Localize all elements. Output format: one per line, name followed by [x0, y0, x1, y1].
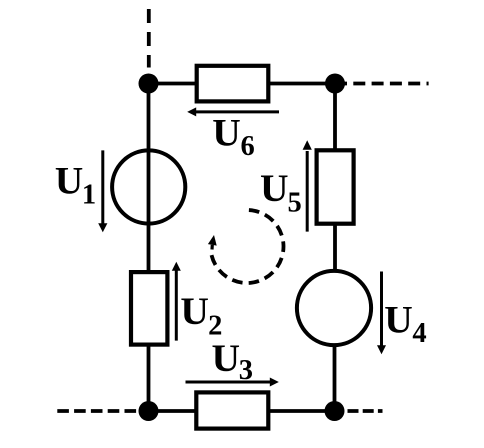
svg-text:3: 3 [239, 355, 253, 386]
voltage arrow U4 (down) [377, 272, 386, 355]
dashed branch continuation right-top [335, 82, 429, 86]
wire bottom-left segment [149, 409, 199, 413]
dashed branch continuation bottom-left [57, 409, 136, 413]
voltage arrow U2 (up) [172, 262, 181, 341]
wire bottom-right segment [267, 409, 335, 413]
resistor (voltage U3) [196, 392, 268, 428]
svg-text:5: 5 [288, 188, 302, 219]
svg-text:6: 6 [241, 131, 255, 162]
voltage arrow U1 (down) [98, 150, 107, 232]
node bottom-right [325, 401, 345, 421]
node top-left [139, 74, 159, 94]
svg-text:U: U [384, 297, 413, 341]
voltage arrow U5 (up) [303, 140, 312, 231]
dashed branch continuation top [147, 9, 151, 68]
source (voltage U1) [112, 150, 185, 223]
wire right-bottom segment [333, 345, 337, 411]
resistor (voltage U6) [197, 66, 269, 102]
svg-text:U: U [55, 159, 84, 203]
svg-text:U: U [260, 166, 289, 210]
wire top-left segment [149, 82, 199, 86]
resistor (voltage U2) [131, 272, 167, 345]
wire left segment (through source U1) [147, 84, 151, 274]
source (voltage U4) [297, 271, 371, 345]
svg-text:U: U [180, 289, 209, 333]
svg-text:U: U [212, 336, 241, 380]
node top-right [325, 74, 345, 94]
svg-text:1: 1 [82, 180, 96, 211]
wire right-middle segment [333, 223, 337, 272]
svg-text:U: U [212, 110, 241, 154]
voltage arrow U3 (right) [186, 378, 279, 387]
mesh direction arrow (dashed circle) [208, 210, 284, 283]
voltage arrow U6 (left) [187, 107, 279, 116]
svg-text:4: 4 [412, 318, 426, 349]
wire right-top segment [333, 84, 337, 153]
wire left-bottom segment [147, 344, 151, 412]
resistor (voltage U5) [317, 150, 354, 223]
node bottom-left [139, 401, 159, 421]
dashed branch continuation bottom-right [348, 409, 383, 413]
wire top-right segment [267, 82, 335, 86]
